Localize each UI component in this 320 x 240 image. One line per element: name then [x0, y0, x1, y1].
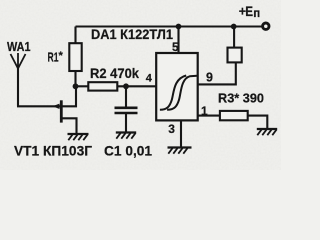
ground (C1): [116, 133, 136, 139]
svg-text:5: 5: [172, 40, 179, 54]
hysteresis symbol inside DA1: [160, 76, 197, 110]
svg-text:R1: R1: [48, 51, 59, 65]
resistor R1: [69, 27, 81, 87]
wire pin 1: [198, 115, 220, 117]
resistor (unlabeled load, top right): [228, 27, 242, 63]
svg-text:9: 9: [206, 70, 213, 84]
svg-text:*: *: [59, 50, 64, 62]
svg-text:C1 0,01: C1 0,01: [104, 143, 152, 159]
svg-text:1: 1: [201, 104, 208, 118]
node load resistor rail: [231, 24, 237, 30]
antenna WA1: [11, 53, 26, 106]
node C1 tap: [123, 83, 129, 89]
wire R2 right to DA1 pin4: [117, 85, 156, 87]
svg-text:VT1 КП103Г: VT1 КП103Г: [14, 142, 92, 158]
resistor R2: [88, 82, 117, 90]
svg-text:4: 4: [146, 73, 153, 85]
IC DA1 K122TL1 (Schmitt trigger) body: [156, 53, 198, 120]
ground (R3): [257, 129, 277, 135]
svg-text:R3* 390: R3* 390: [218, 92, 264, 106]
svg-text:3: 3: [168, 122, 175, 136]
svg-text:WA1: WA1: [7, 40, 31, 54]
ground (DA1 pin 3): [168, 148, 192, 154]
svg-text:п: п: [253, 8, 260, 20]
transistor VT1: [53, 87, 77, 134]
resistor R3: [220, 111, 248, 120]
wire R2 left: [76, 85, 89, 87]
wire pin 5: [177, 27, 179, 54]
svg-text:R2 470k: R2 470k: [90, 65, 139, 81]
wire R3 right: [248, 116, 268, 129]
node pin5 rail: [176, 24, 182, 30]
wire gate: [17, 105, 61, 107]
svg-text:E: E: [245, 4, 253, 19]
capacitor C1: [115, 86, 138, 132]
svg-text:DA1 К122ТЛ1: DA1 К122ТЛ1: [91, 26, 173, 42]
wire pin 3: [180, 120, 182, 147]
terminal +En: [263, 23, 269, 29]
node drain junction: [73, 83, 79, 89]
wire top rail: [76, 25, 262, 27]
ground (VT1 source): [68, 134, 89, 140]
wire pin 9 to load resistor: [198, 62, 236, 84]
